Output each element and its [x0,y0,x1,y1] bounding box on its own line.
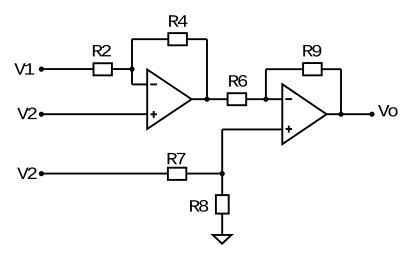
wire R9 left [266,68,303,70]
resistor R7 [168,168,186,180]
node D junction [338,112,343,117]
label R6 [229,75,247,87]
label R7 [168,153,186,164]
resistor R9 [303,63,322,75]
label R8 [190,200,208,212]
resistor R6 [228,93,247,105]
terminal node Vo [369,112,374,117]
wire V1 to R2 [41,68,93,70]
wire U1 output to R6 [192,98,228,100]
wire R6 to U2 inverting input [246,98,282,100]
resistor R4 [168,33,187,45]
resistor R2 [94,63,112,75]
terminal node V2 middle [39,112,44,117]
U1 minus pin mark [150,83,157,85]
U2 plus pin mark [286,128,293,130]
op-amp U1 [147,70,191,130]
wire V2 to U1 non-inverting input [41,113,147,115]
node E junction [220,171,225,176]
wire U2 non-inverting input horizontal [222,128,282,130]
label R9 [303,45,321,57]
wire R4 left [132,38,168,40]
wire R4 vertical down to U1 output [206,39,208,99]
ground [213,235,232,244]
label V2 middle [17,108,36,120]
U2 minus pin mark [285,98,292,100]
wire node A vertical [131,39,133,84]
wire vertical down to R8 [221,129,223,195]
wire R7 to node E [186,173,222,175]
wire R8 to ground [221,214,223,235]
node B junction [204,97,209,102]
U1 plus pin mark [151,113,158,115]
op-amp U2 [282,84,326,144]
resistor R8 [216,195,229,214]
wire node C vertical up [265,69,267,99]
node A junction [129,67,134,72]
wire R4 right [187,38,207,40]
label R2 [93,45,111,57]
label V1 [14,63,34,74]
label R4 [169,15,187,26]
wire R9 vertical down to U2 output [340,69,342,114]
wire R9 right [322,68,341,70]
node C junction [263,97,268,102]
terminal node V2 bottom [39,171,44,176]
wire U2 output to Vo [327,113,372,115]
terminal node V1 [39,67,44,72]
wire R2 to node A [112,68,132,70]
wire V2 bottom to R7 [41,173,167,175]
label Vo [378,105,398,117]
label V2 bottom [17,167,36,179]
wire to U1 inverting input [132,83,147,85]
